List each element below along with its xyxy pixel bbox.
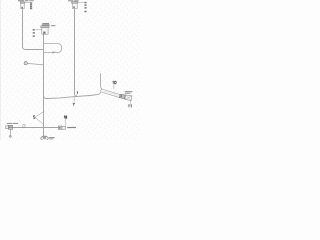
- wire from top-right connector down to main harness: [75, 9, 78, 97]
- connector 1 pin cavity: [43, 32, 45, 34]
- connector 3 pin cavity: [73, 6, 75, 8]
- callout 5 leader lower: [36, 118, 44, 125]
- bottom-left connector second pin: [10, 127, 13, 129]
- terminal blob at drop wire end: [9, 135, 11, 137]
- clip tick on service loop: [52, 51, 54, 54]
- connector 3 body: [72, 3, 77, 8]
- ring terminal hole: [25, 63, 26, 64]
- connector 10/11 plug: [119, 94, 125, 99]
- callout 18 leader: [64, 119, 66, 126]
- bottom-left connector small half: [6, 126, 9, 129]
- label above bottom-left connector: [7, 123, 18, 124]
- clip tick label: [53, 52, 56, 53]
- bottom cross wire (license lamp feed): [13, 127, 59, 129]
- callout 7 label: [73, 103, 75, 105]
- callout 10 leader: [113, 84, 115, 89]
- bottom-left connector pin: [9, 126, 10, 128]
- grommet hole: [43, 137, 46, 139]
- ring terminal (ground eyelet): [24, 62, 27, 65]
- pin list wire codes (top-left): [30, 2, 32, 4]
- right connector pair on bottom wire: [58, 126, 61, 129]
- conduit sleeve (rear harness): [100, 89, 121, 98]
- pin list stub (mid connector): [35, 29, 41, 31]
- callout 11 leader: [130, 100, 132, 104]
- pin list pointer (top-right): [78, 1, 84, 3]
- label right of bottom connector: [67, 127, 76, 128]
- main harness wire down from connector 1: [43, 34, 45, 136]
- tiny label right of grommet: [49, 137, 55, 139]
- clip square on bottom wire: [23, 125, 25, 128]
- bottom-left connector main half: [8, 125, 12, 129]
- label text above connector 2 (top-left, cut at top): [18, 0, 34, 1]
- background paper: [0, 0, 140, 140]
- wire from ring terminal to main harness: [27, 63, 43, 65]
- callout 5 label: [33, 116, 35, 119]
- label above bulb socket: [125, 91, 133, 94]
- connector 2 pin cavity: [21, 7, 23, 9]
- pin list pointer (top-left): [25, 2, 30, 4]
- bulb socket box with cross: [125, 95, 132, 101]
- connector 1 body: [42, 28, 48, 35]
- callout 11 label: [128, 105, 131, 108]
- left scan edge: [0, 0, 2, 140]
- small label right of connector 1 bar: [51, 25, 56, 26]
- connector 2 body: [21, 3, 24, 8]
- connector 2 top-left housing bar: [20, 2, 25, 3]
- drop wire from bottom-left connector: [10, 129, 12, 136]
- connector 3 top-right housing bar: [72, 2, 78, 4]
- grommet at bottom of main harness: [41, 136, 49, 140]
- callout 10 label: [113, 81, 117, 84]
- callout 1 leader (above harness corner): [76, 94, 77, 96]
- pin list wire codes (top-right): [85, 2, 87, 4]
- wire from tail lamp connector down, corner to junction: [23, 9, 44, 50]
- stub wire entering sleeve from above: [101, 73, 103, 89]
- label text above connector 3 (top-right, cut at top): [68, 0, 79, 2]
- service loop on main harness: [44, 44, 62, 53]
- callout 18 label: [64, 116, 67, 119]
- connector 1 housing bar: [41, 26, 49, 28]
- label text above connector 1 (mid) line 1: [42, 23, 50, 25]
- callout 7 leader (below harness): [74, 97, 76, 102]
- pin list wire codes (mid connector): [33, 29, 35, 31]
- callout 5 leader upper: [36, 111, 45, 116]
- main horizontal harness to rear: [44, 92, 101, 98]
- callout 1 label: [76, 92, 79, 94]
